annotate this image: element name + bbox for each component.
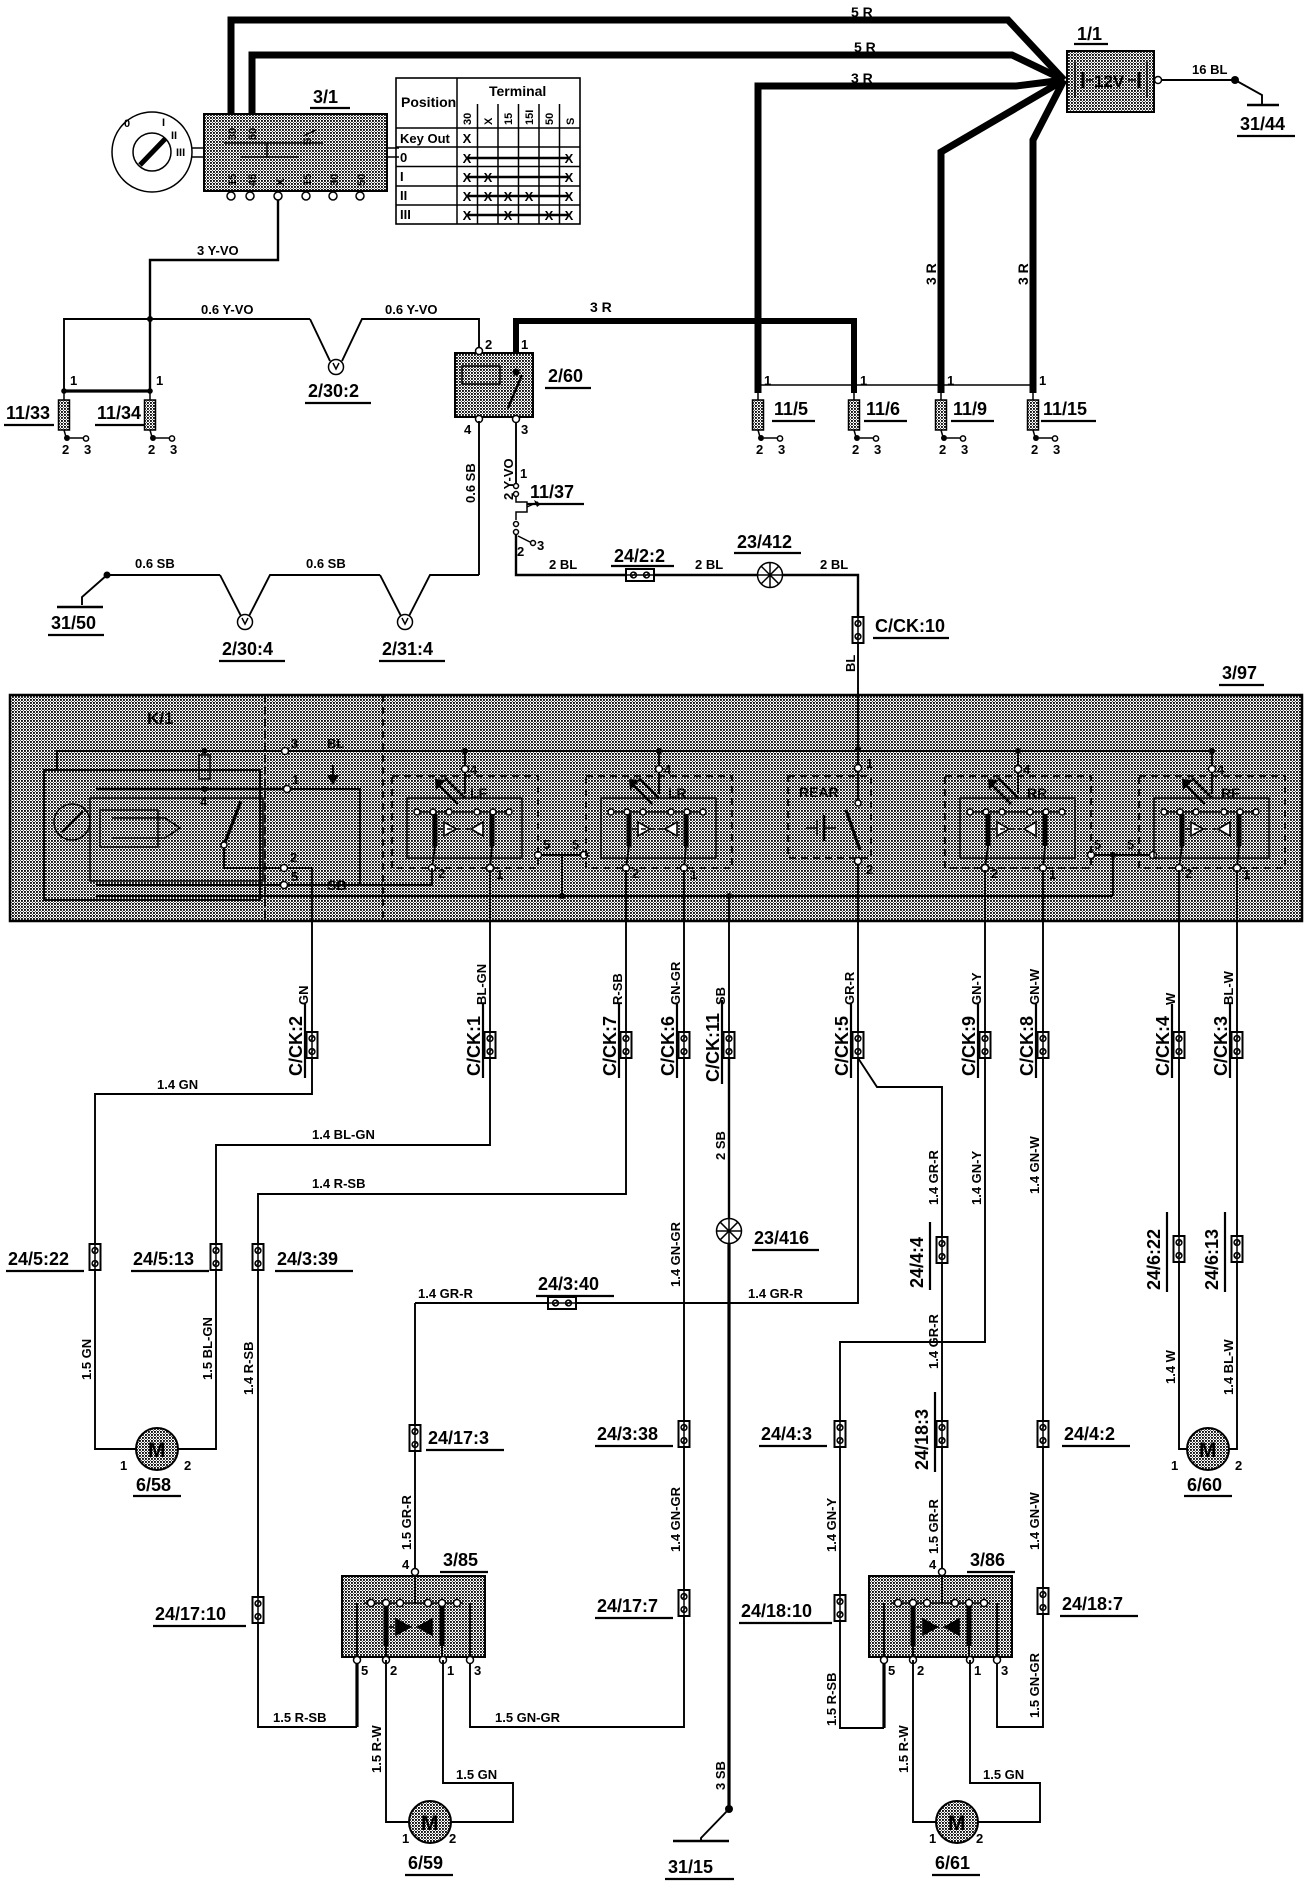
svg-text:15: 15 [227,174,239,186]
svg-text:24/6:13: 24/6:13 [1202,1229,1222,1290]
svg-text:GN-W: GN-W [1027,968,1042,1005]
svg-text:2: 2 [1235,1458,1242,1473]
svg-text:11/9: 11/9 [953,399,987,419]
svg-text:50: 50 [247,128,259,140]
svg-text:II: II [171,130,177,142]
svg-text:3/85: 3/85 [443,1550,478,1570]
svg-text:4: 4 [664,762,672,777]
svg-text:C/CK:6: C/CK:6 [658,1016,678,1076]
svg-text:1.4 GN: 1.4 GN [157,1077,198,1092]
svg-text:24/4:4: 24/4:4 [907,1237,927,1288]
svg-text:2 SB: 2 SB [713,1131,728,1160]
svg-text:X: X [483,117,495,125]
svg-text:S: S [302,138,314,145]
svg-text:X: X [484,189,493,204]
svg-text:23/412: 23/412 [737,532,792,552]
svg-text:Key Out: Key Out [400,131,451,146]
svg-text:24/17:3: 24/17:3 [428,1428,489,1448]
svg-text:GN-GR: GN-GR [668,961,683,1005]
svg-text:31/50: 31/50 [51,613,96,633]
svg-text:1.4 GN-GR: 1.4 GN-GR [668,1486,683,1552]
svg-text:1.4 GN-W: 1.4 GN-W [1027,1491,1042,1550]
svg-text:0.6 Y-VO: 0.6 Y-VO [201,302,254,317]
svg-text:III: III [400,207,411,222]
svg-text:11/33: 11/33 [6,403,50,423]
svg-text:5: 5 [1094,837,1101,852]
svg-text:1: 1 [120,1458,127,1473]
svg-text:3 R: 3 R [1015,263,1031,285]
svg-text:S: S [565,118,577,125]
svg-text:50: 50 [544,113,556,125]
svg-text:RF: RF [1221,785,1240,801]
svg-text:1.5 R-SB: 1.5 R-SB [273,1710,326,1725]
svg-text:5: 5 [291,869,298,884]
svg-text:24/4:2: 24/4:2 [1064,1424,1115,1444]
svg-text:24/5:13: 24/5:13 [133,1249,194,1269]
svg-text:3/97: 3/97 [1222,663,1257,683]
svg-text:BL-GN: BL-GN [474,964,489,1005]
svg-text:X: X [565,189,574,204]
svg-text:C/CK:5: C/CK:5 [832,1016,852,1076]
svg-text:1.4 GN-W: 1.4 GN-W [1027,1135,1042,1194]
svg-text:GN: GN [296,986,311,1006]
svg-text:1.5 GN-GR: 1.5 GN-GR [495,1710,561,1725]
svg-text:X: X [463,208,472,223]
svg-text:50: 50 [356,174,368,186]
svg-text:0.6 SB: 0.6 SB [135,556,175,571]
svg-text:1.5 BL-GN: 1.5 BL-GN [200,1317,215,1380]
svg-text:4: 4 [1023,762,1031,777]
svg-text:6/58: 6/58 [136,1475,171,1495]
svg-text:C/CK:1: C/CK:1 [464,1016,484,1076]
svg-text:15I: 15I [524,110,536,125]
svg-text:3 R: 3 R [851,70,873,86]
svg-text:III: III [176,147,185,159]
svg-text:24/2:2: 24/2:2 [614,546,665,566]
svg-text:I: I [400,169,404,184]
svg-text:X: X [565,170,574,185]
svg-text:3: 3 [291,736,298,751]
svg-text:1.4 GN-Y: 1.4 GN-Y [824,1497,839,1552]
svg-text:30: 30 [227,128,239,140]
svg-text:C/CK:7: C/CK:7 [600,1016,620,1076]
svg-text:5: 5 [572,837,579,852]
svg-text:1.4 GN-Y: 1.4 GN-Y [969,1150,984,1205]
svg-text:1: 1 [1171,1458,1178,1473]
svg-text:GR-R: GR-R [842,971,857,1005]
svg-text:C/CK:8: C/CK:8 [1017,1016,1037,1076]
svg-text:1.5 GN: 1.5 GN [79,1339,94,1380]
svg-text:5: 5 [543,837,550,852]
svg-text:1.5 GN: 1.5 GN [456,1767,497,1782]
svg-text:X: X [484,170,493,185]
svg-text:C/CK:2: C/CK:2 [286,1016,306,1076]
svg-text:24/18:7: 24/18:7 [1062,1594,1123,1614]
svg-text:3: 3 [537,538,544,553]
svg-text:1: 1 [520,466,527,481]
svg-text:3 Y-VO: 3 Y-VO [197,243,239,258]
svg-text:1: 1 [929,1831,936,1846]
svg-text:1.4 W: 1.4 W [1163,1349,1178,1384]
svg-text:0.6 SB: 0.6 SB [306,556,346,571]
svg-text:X: X [463,151,472,166]
svg-text:REAR: REAR [799,784,839,800]
svg-text:2/60: 2/60 [548,366,583,386]
svg-text:3 R: 3 R [590,299,612,315]
svg-text:1: 1 [521,337,528,352]
svg-text:X: X [463,131,472,146]
svg-text:1: 1 [402,1831,409,1846]
svg-text:2/31:4: 2/31:4 [382,639,433,659]
svg-text:2: 2 [449,1831,456,1846]
svg-text:C/CK:9: C/CK:9 [959,1016,979,1076]
svg-text:II: II [400,188,407,203]
svg-text:1.5 GN: 1.5 GN [983,1767,1024,1782]
svg-text:1/1: 1/1 [1077,24,1102,44]
svg-text:2: 2 [485,337,492,352]
svg-text:LR: LR [668,785,687,801]
svg-text:23/416: 23/416 [754,1228,809,1248]
svg-text:11/37: 11/37 [530,482,574,502]
svg-text:45: 45 [247,174,259,186]
svg-text:1.5 R-W: 1.5 R-W [896,1725,911,1773]
svg-text:11/15: 11/15 [1043,399,1087,419]
svg-text:30: 30 [462,113,474,125]
svg-text:BL: BL [843,655,858,672]
svg-text:6/60: 6/60 [1187,1475,1222,1495]
svg-text:1.4 GR-R: 1.4 GR-R [418,1286,474,1301]
svg-text:2: 2 [517,544,524,559]
svg-text:24/4:3: 24/4:3 [761,1424,812,1444]
svg-text:1.5 GR-R: 1.5 GR-R [399,1494,414,1550]
svg-text:1.4 GR-R: 1.4 GR-R [926,1149,941,1205]
svg-text:2: 2 [976,1831,983,1846]
svg-text:4: 4 [470,762,478,777]
svg-text:24/5:22: 24/5:22 [8,1249,69,1269]
svg-text:4: 4 [200,794,208,809]
svg-text:SB: SB [713,987,728,1005]
svg-text:1.4 R-SB: 1.4 R-SB [312,1176,365,1191]
svg-text:1.4 GN-GR: 1.4 GN-GR [668,1221,683,1287]
svg-text:1.4 BL-GN: 1.4 BL-GN [312,1127,375,1142]
svg-text:4: 4 [464,422,472,437]
svg-text:15: 15 [302,174,314,186]
svg-text:24/6:22: 24/6:22 [1144,1229,1164,1290]
svg-text:1.4 BL-W: 1.4 BL-W [1221,1339,1236,1395]
svg-text:3/1: 3/1 [313,87,338,107]
svg-text:2 BL: 2 BL [549,557,577,572]
svg-text:2 BL: 2 BL [695,557,723,572]
svg-text:R-SB: R-SB [610,973,625,1005]
svg-text:2/30:4: 2/30:4 [222,639,273,659]
svg-text:I: I [162,117,165,129]
svg-text:X: X [504,189,513,204]
svg-text:C/CK:3: C/CK:3 [1211,1016,1231,1076]
svg-text:24/3:40: 24/3:40 [538,1274,599,1294]
svg-text:4: 4 [1217,762,1225,777]
svg-text:0: 0 [400,150,407,165]
svg-text:24/18:10: 24/18:10 [741,1601,812,1621]
svg-text:3: 3 [521,422,528,437]
svg-text:1.4 GR-R: 1.4 GR-R [748,1286,804,1301]
svg-text:5: 5 [1127,837,1134,852]
svg-text:K/1: K/1 [147,709,173,728]
svg-text:24/3:38: 24/3:38 [597,1424,658,1444]
svg-text:15: 15 [503,113,515,125]
svg-text:5 R: 5 R [854,39,876,55]
svg-text:Terminal: Terminal [489,83,546,99]
svg-text:6/61: 6/61 [935,1853,970,1873]
svg-text:2 BL: 2 BL [820,557,848,572]
svg-text:2: 2 [184,1458,191,1473]
svg-text:1.5 GR-R: 1.5 GR-R [926,1498,941,1554]
svg-text:BL-W: BL-W [1221,970,1236,1005]
svg-text:6/59: 6/59 [408,1853,443,1873]
svg-text:X: X [545,208,554,223]
svg-text:12V: 12V [1094,72,1125,91]
svg-text:X: X [504,208,513,223]
svg-text:2/30:2: 2/30:2 [308,381,359,401]
svg-text:SB: SB [327,877,346,893]
svg-text:11/6: 11/6 [866,399,900,419]
svg-text:31/44: 31/44 [1240,114,1285,134]
svg-text:X: X [565,208,574,223]
svg-text:GN-Y: GN-Y [969,972,984,1005]
svg-text:X: X [463,189,472,204]
svg-text:16 BL: 16 BL [1192,62,1227,77]
svg-text:1.5 R-W: 1.5 R-W [369,1725,384,1773]
svg-text:24/3:39: 24/3:39 [277,1249,338,1269]
svg-text:3 R: 3 R [923,263,939,285]
svg-text:30: 30 [329,174,341,186]
svg-text:Position: Position [401,94,456,110]
svg-text:2: 2 [866,862,873,877]
svg-text:1.4 R-SB: 1.4 R-SB [241,1342,256,1395]
svg-text:24/18:3: 24/18:3 [912,1409,932,1470]
svg-text:X: X [463,170,472,185]
svg-text:31/15: 31/15 [668,1857,713,1877]
svg-text:3/86: 3/86 [970,1550,1005,1570]
svg-text:X: X [275,178,287,186]
svg-text:1: 1 [292,772,299,787]
svg-text:C/CK:4: C/CK:4 [1153,1016,1173,1076]
svg-text:3 SB: 3 SB [713,1761,728,1790]
svg-text:BL: BL [327,736,344,751]
svg-text:C/CK:10: C/CK:10 [875,616,945,636]
svg-text:24/17:10: 24/17:10 [155,1604,226,1624]
svg-text:RR: RR [1027,785,1047,801]
svg-text:0: 0 [124,118,130,130]
svg-text:5 R: 5 R [851,4,873,20]
svg-text:1.5 R-SB: 1.5 R-SB [824,1673,839,1726]
svg-text:0.6 Y-VO: 0.6 Y-VO [385,302,438,317]
svg-text:X: X [525,189,534,204]
svg-text:24/17:7: 24/17:7 [597,1596,658,1616]
svg-text:1.5 GN-GR: 1.5 GN-GR [1027,1652,1042,1718]
svg-text:0.6 SB: 0.6 SB [463,463,478,503]
svg-text:X: X [565,151,574,166]
svg-text:C/CK:11: C/CK:11 [703,1013,723,1082]
svg-text:2: 2 [290,850,297,865]
svg-text:11/34: 11/34 [97,403,141,423]
svg-text:11/5: 11/5 [774,399,808,419]
svg-text:1: 1 [866,756,873,771]
svg-text:W: W [1163,992,1178,1005]
svg-text:LF: LF [470,785,488,801]
